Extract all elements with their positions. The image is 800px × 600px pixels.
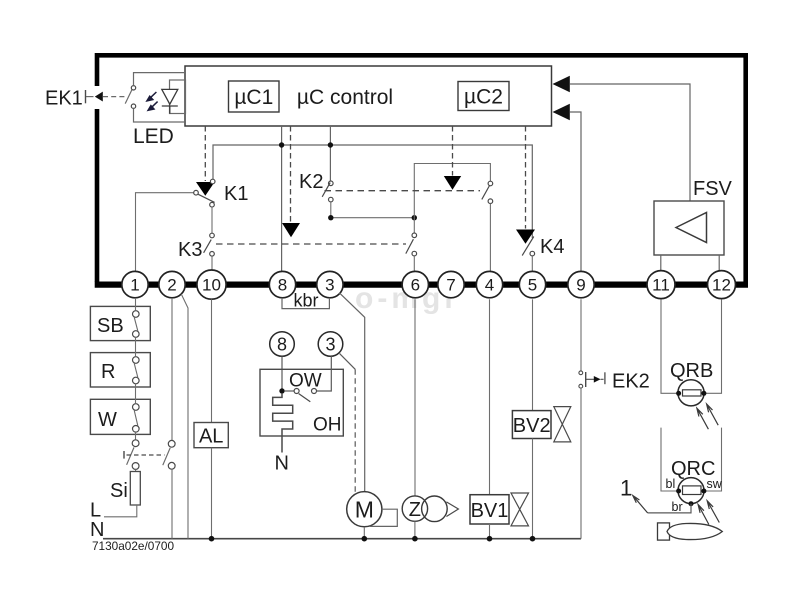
wire terminal 1 to K1 pivot	[136, 193, 194, 272]
wire ref3 dashed to motor	[340, 354, 356, 370]
wire main rail y145 with K1 and K4 drops	[213, 145, 532, 238]
flame	[667, 523, 722, 539]
main switch dashed linkage	[127, 454, 165, 456]
svg-text:sw: sw	[707, 477, 723, 491]
svg-text:OH: OH	[313, 415, 342, 436]
terminal 12	[708, 271, 736, 299]
svg-text:OW: OW	[289, 371, 322, 392]
svg-text:11: 11	[652, 276, 670, 295]
wire uC box to terminal 8	[281, 126, 283, 272]
wire terminal 2 direct branch	[181, 294, 188, 539]
terminal bus (thick bottom edge)	[95, 282, 748, 288]
K1 actuator triangle	[196, 182, 215, 196]
wire switch to rail	[171, 469, 173, 539]
svg-text:W: W	[98, 409, 117, 431]
EK1 dashed actuation line	[103, 96, 126, 98]
wire AL to rail	[211, 448, 213, 539]
svg-text:µC2: µC2	[464, 86, 503, 109]
motor terminal-box flag	[370, 509, 398, 526]
wire terminal 10 to AL	[211, 299, 213, 422]
svg-text:R: R	[101, 361, 115, 383]
svg-text:1: 1	[130, 276, 139, 295]
terminal 7	[438, 271, 464, 297]
svg-text:LED: LED	[133, 125, 174, 148]
LED light arrows	[147, 92, 158, 110]
SB box	[90, 306, 150, 340]
terminal 11	[647, 271, 675, 299]
wire FSV to terminal 11	[660, 255, 662, 272]
wire terminal 5 to BV2	[532, 299, 534, 410]
node junction y145/terminal8 wire	[279, 142, 284, 147]
neutral rail	[103, 538, 581, 540]
svg-text:Si: Si	[110, 480, 128, 502]
svg-text:BV1: BV1	[471, 500, 509, 522]
wire terminal 1 down through SB/R/W chain	[135, 298, 137, 440]
EK1/LED switch blade	[125, 89, 132, 104]
K2 right contact	[488, 181, 493, 186]
uC1 box	[229, 81, 280, 112]
svg-text:N: N	[90, 519, 104, 541]
EK1 push-button stem	[85, 90, 87, 103]
QRC light arrow 2	[707, 501, 719, 523]
W contact	[133, 404, 140, 411]
svg-text:10: 10	[202, 276, 221, 295]
svg-text:N: N	[275, 453, 289, 475]
svg-text:SB: SB	[97, 315, 124, 337]
wire K1 to K3	[211, 207, 213, 233]
node QRB right	[701, 391, 706, 396]
node junction right	[412, 215, 417, 220]
svg-text:9: 9	[576, 276, 585, 295]
wire terminal 4 to BV1	[489, 299, 491, 494]
QRC light arrow 1	[698, 505, 709, 525]
R box	[90, 353, 150, 387]
svg-text:kbr: kbr	[293, 291, 318, 311]
svg-text:AL: AL	[199, 426, 223, 448]
svg-text:Z: Z	[409, 499, 421, 521]
terminal 10	[197, 270, 226, 299]
K4 actuator triangle	[516, 230, 535, 244]
svg-text:K1: K1	[224, 183, 248, 205]
node BV1/rail	[487, 536, 493, 542]
OW/OH thermostat box	[260, 369, 343, 436]
svg-text:7: 7	[446, 276, 455, 295]
terminal 3	[317, 271, 343, 297]
svg-text:3: 3	[325, 335, 335, 355]
node AL/rail	[209, 536, 215, 542]
K4 dashed actuator line	[525, 126, 527, 229]
wire ref8 into OW/OH box	[281, 356, 283, 391]
wire terminal 11 to QRB	[661, 299, 678, 393]
svg-text:8: 8	[278, 276, 287, 295]
QRB light arrow 1	[697, 408, 709, 429]
wire Z to rail	[414, 521, 416, 538]
node M/rail	[362, 536, 368, 542]
terminal 5	[519, 271, 545, 297]
wire EK2 to rail end	[580, 388, 582, 539]
EK1 arrow	[95, 92, 103, 102]
node QRC left	[676, 489, 681, 494]
main switch left pole	[132, 440, 139, 447]
svg-text:4: 4	[485, 276, 494, 295]
EK1/LED switch contacts	[131, 86, 135, 90]
svg-text:FSV: FSV	[693, 178, 733, 200]
main switch stem tick	[123, 451, 125, 459]
QRB sensor	[678, 380, 704, 406]
K3 actuator triangle	[282, 223, 300, 237]
W box	[90, 399, 150, 434]
BV2 box	[512, 411, 551, 439]
K3 right contact (terminal 6 branch)	[413, 218, 415, 233]
K2 dashed actuator line	[452, 126, 454, 176]
node junction left	[328, 215, 333, 220]
K3 dashed linkage line	[216, 243, 406, 245]
wire K2 left to junction	[330, 202, 332, 218]
ignition transformer Z	[402, 496, 427, 521]
terminal 6	[402, 271, 428, 297]
svg-text:7130a02e/0700: 7130a02e/0700	[92, 539, 174, 553]
wire terminal 12 to QRB	[705, 299, 722, 393]
QRB light arrow 2	[707, 404, 719, 425]
svg-text:BV2: BV2	[513, 415, 551, 437]
Si fuse	[135, 469, 137, 471]
svg-text:bl: bl	[666, 477, 676, 491]
QRC sensor	[678, 478, 704, 504]
wire QRC br to node 1	[648, 504, 691, 513]
BV1 valve	[511, 493, 529, 509]
K2 left contact	[329, 181, 334, 186]
uC2 box	[458, 82, 509, 111]
wire uC box to K2 left contact	[329, 126, 331, 181]
wire junction horizontal y217	[331, 217, 415, 219]
K3 contact left	[210, 233, 215, 238]
svg-text:12: 12	[712, 276, 731, 295]
node QRC right	[701, 489, 706, 494]
node heater junction	[279, 388, 284, 393]
wire OW contact to ref3	[317, 356, 332, 391]
AL box	[194, 423, 228, 448]
uC control box U1	[185, 66, 552, 126]
R contact	[133, 357, 140, 364]
LED enclosure box	[134, 73, 186, 122]
terminal 1	[122, 271, 148, 297]
svg-text:K3: K3	[178, 239, 202, 261]
wire stub 12 to QRC	[705, 428, 722, 491]
motor M	[347, 492, 382, 527]
wire terminal 2 down through main switch right pole	[171, 298, 173, 440]
arrow into uC box (from FSV line)	[553, 76, 570, 93]
wire terminal 3 to motor	[339, 293, 365, 492]
svg-text:K4: K4	[540, 236, 564, 258]
K2 dashed linkage line	[325, 190, 481, 192]
arrow into uC box (from terminal 9)	[553, 104, 570, 121]
wire fuse to L	[104, 505, 137, 517]
SB contact	[133, 311, 140, 318]
svg-text:K2: K2	[299, 171, 323, 193]
svg-text:3: 3	[325, 276, 334, 295]
svg-text:2: 2	[167, 276, 176, 295]
node ref 3 (circled)	[318, 332, 343, 357]
FSV box	[654, 201, 724, 255]
arrow to node 1	[633, 496, 648, 513]
K1 contact	[210, 179, 215, 184]
BV1 box	[470, 495, 509, 524]
svg-text:EK2: EK2	[612, 371, 650, 393]
svg-text:EK1: EK1	[45, 88, 83, 110]
svg-text:1: 1	[620, 476, 632, 501]
svg-text:M: M	[355, 497, 374, 523]
LED inner rect	[170, 80, 186, 114]
EK2 actuation arrow	[586, 378, 595, 380]
OW contact	[285, 390, 294, 392]
terminal 8	[269, 271, 295, 297]
K2 actuator triangle	[444, 176, 461, 190]
svg-text:6: 6	[411, 276, 420, 295]
wire K3 to terminal 10	[211, 256, 213, 271]
K1 dashed actuator line	[204, 126, 206, 181]
svg-text:µC1: µC1	[234, 86, 273, 109]
wire FSV to terminal 12	[718, 255, 720, 272]
BV2 valve	[554, 407, 571, 425]
wire FSV feedback top	[570, 84, 690, 201]
wire BV1 to rail	[489, 524, 491, 539]
wire M to rail	[363, 527, 365, 539]
svg-text:µC control: µC control	[297, 86, 393, 109]
svg-text:5: 5	[528, 276, 537, 295]
Z electrode chevron	[446, 502, 458, 517]
LED diode symbol	[162, 89, 178, 113]
wire K4 to terminal 5	[531, 256, 533, 272]
wire bridge to K2 right contact	[414, 164, 490, 218]
wire terminal 9 to EK2	[580, 299, 582, 371]
node QRC bottom	[689, 501, 694, 506]
node QRB left	[676, 391, 681, 396]
EK2 contact	[579, 371, 583, 375]
node BV2/rail	[530, 536, 536, 542]
terminal 2	[159, 271, 185, 297]
FSV triangle	[676, 213, 707, 243]
node ref 8 (circled)	[270, 332, 295, 357]
terminal 4	[476, 271, 502, 297]
wire terminal 6 to Z	[414, 299, 416, 496]
wire to terminal 6	[413, 256, 415, 272]
flame nozzle	[658, 523, 670, 540]
wire K2 right to terminal 4	[489, 204, 491, 272]
wire BV2 to rail	[532, 439, 534, 539]
node Z/rail	[412, 536, 418, 542]
main switch right pole	[168, 440, 175, 447]
terminals	[122, 270, 736, 299]
node junction y145/K2 wire	[328, 142, 333, 147]
control unit frame (thick box)	[97, 55, 746, 282]
wire stub 11 to QRC	[661, 428, 678, 491]
wire terminal 9 to uC box	[570, 112, 581, 272]
kbr jumper wire	[282, 298, 329, 309]
svg-text:QRB: QRB	[670, 360, 713, 382]
terminal 9	[568, 271, 594, 297]
svg-text:8: 8	[277, 335, 287, 355]
OH heater element	[273, 394, 293, 453]
K4 contact blade	[522, 237, 534, 256]
K3 dashed actuator line	[290, 126, 292, 223]
svg-text:br: br	[672, 500, 683, 514]
